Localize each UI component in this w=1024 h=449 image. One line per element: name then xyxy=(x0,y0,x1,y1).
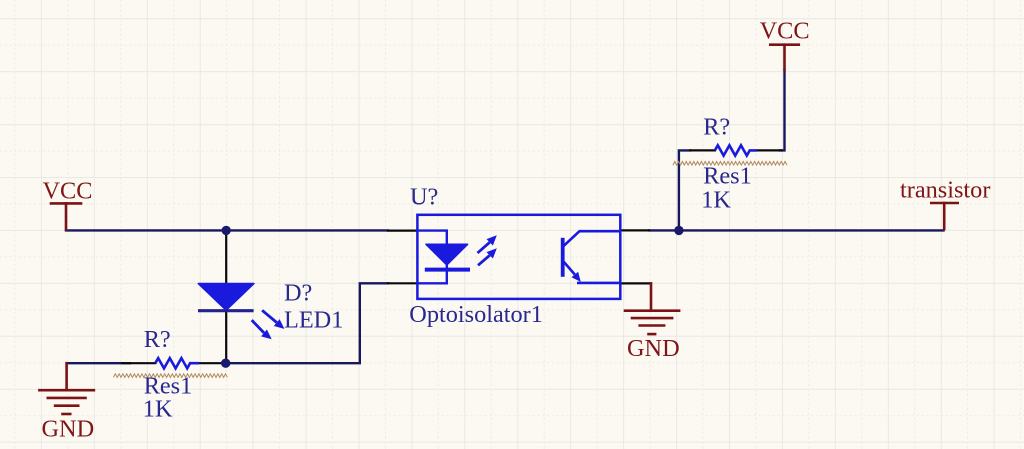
svg-text:Optoisolator1: Optoisolator1 xyxy=(409,301,543,328)
svg-text:LED1: LED1 xyxy=(284,307,343,334)
svg-text:GND: GND xyxy=(627,335,680,362)
svg-text:1K: 1K xyxy=(701,187,731,214)
svg-text:Res1: Res1 xyxy=(703,163,752,190)
svg-text:U?: U? xyxy=(410,184,438,211)
svg-text:D?: D? xyxy=(284,280,312,307)
svg-text:R?: R? xyxy=(144,326,171,353)
svg-text:R?: R? xyxy=(703,114,730,141)
svg-text:1K: 1K xyxy=(143,396,173,423)
svg-text:VCC: VCC xyxy=(760,18,810,45)
svg-text:GND: GND xyxy=(42,416,95,443)
svg-text:transistor: transistor xyxy=(900,177,990,204)
svg-text:VCC: VCC xyxy=(43,178,93,205)
